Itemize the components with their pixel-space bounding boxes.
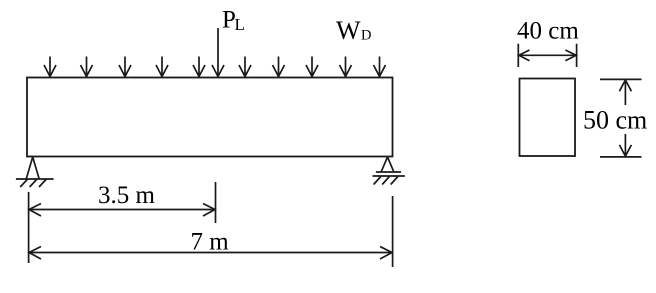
distributed load arrow 10 xyxy=(374,57,386,77)
distributed load arrow 9 xyxy=(340,57,352,77)
distributed load arrow 1 xyxy=(44,57,56,77)
distributed load arrow 5 xyxy=(193,57,205,77)
distributed load arrow 7 xyxy=(273,57,285,77)
left support ground line xyxy=(16,178,54,180)
mid dimension extension line (3.5 m tick) xyxy=(215,182,217,223)
distributed load arrow 3 xyxy=(119,57,131,77)
distributed load arrow 8 xyxy=(306,57,318,77)
svg-text:D: D xyxy=(361,27,371,43)
50 cm extension line top xyxy=(600,78,642,80)
3.5 m dimension line xyxy=(29,204,216,217)
40 cm extension line left xyxy=(517,44,519,67)
svg-text:50 cm: 50 cm xyxy=(583,106,647,135)
right dimension extension line xyxy=(392,196,394,267)
50 cm dimension arrow xyxy=(619,80,631,156)
distributed load arrow 6 xyxy=(239,57,251,77)
svg-text:W: W xyxy=(336,16,361,45)
cross-section rectangle xyxy=(520,79,576,157)
40 cm dimension arrow xyxy=(518,50,576,61)
left dimension extension line xyxy=(28,192,30,263)
40 cm extension line right xyxy=(576,44,578,67)
point load arrow PL xyxy=(212,28,224,77)
right support ground line xyxy=(373,175,405,177)
left support hatch marks xyxy=(20,179,46,187)
svg-text:7 m: 7 m xyxy=(191,229,230,256)
label PL xyxy=(222,7,245,34)
distributed load arrow 4 xyxy=(156,57,168,77)
right support triangle xyxy=(381,157,394,172)
label WD xyxy=(336,16,371,45)
svg-text:40 cm: 40 cm xyxy=(517,18,579,45)
svg-text:3.5 m: 3.5 m xyxy=(98,182,156,209)
50 cm extension line bottom xyxy=(600,156,642,158)
left pin support triangle xyxy=(26,157,39,179)
7 m dimension line xyxy=(29,247,393,260)
beam outline rectangle xyxy=(27,78,393,157)
right support hatch marks xyxy=(374,177,398,185)
svg-text:L: L xyxy=(235,15,245,34)
right support base bar xyxy=(376,171,401,173)
distributed load arrow 2 xyxy=(81,57,93,77)
